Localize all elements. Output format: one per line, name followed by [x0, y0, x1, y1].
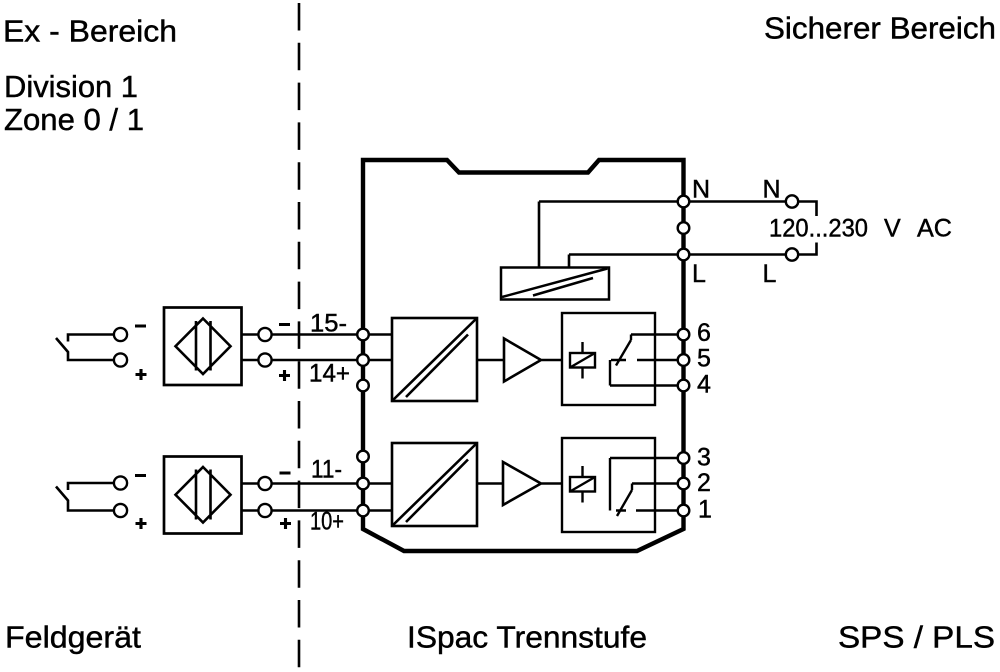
svg-text:120...230: 120...230	[769, 215, 868, 243]
svg-text:V: V	[884, 215, 901, 243]
svg-text:Division 1: Division 1	[4, 69, 138, 104]
svg-text:AC: AC	[917, 215, 952, 243]
svg-text:L: L	[763, 260, 777, 288]
svg-text:15-: 15-	[310, 310, 347, 338]
svg-text:1: 1	[698, 496, 712, 524]
svg-text:SPS / PLS: SPS / PLS	[838, 620, 995, 655]
svg-text:Sicherer Bereich: Sicherer Bereich	[764, 11, 996, 46]
svg-text:3: 3	[697, 444, 711, 472]
svg-text:Ex - Bereich: Ex - Bereich	[3, 14, 177, 49]
svg-text:N: N	[763, 176, 781, 204]
svg-text:11-: 11-	[311, 456, 342, 484]
svg-text:14+: 14+	[309, 360, 350, 388]
svg-text:Zone 0 / 1: Zone 0 / 1	[4, 102, 144, 137]
svg-text:L: L	[692, 260, 706, 288]
svg-text:2: 2	[697, 469, 711, 497]
svg-text:ISpac Trennstufe: ISpac Trennstufe	[407, 620, 647, 655]
svg-text:N: N	[692, 176, 710, 204]
svg-text:10+: 10+	[310, 508, 344, 536]
svg-text:4: 4	[697, 371, 711, 399]
svg-text:5: 5	[697, 345, 711, 373]
svg-text:6: 6	[697, 319, 711, 347]
svg-text:Feldgerät: Feldgerät	[5, 620, 141, 655]
